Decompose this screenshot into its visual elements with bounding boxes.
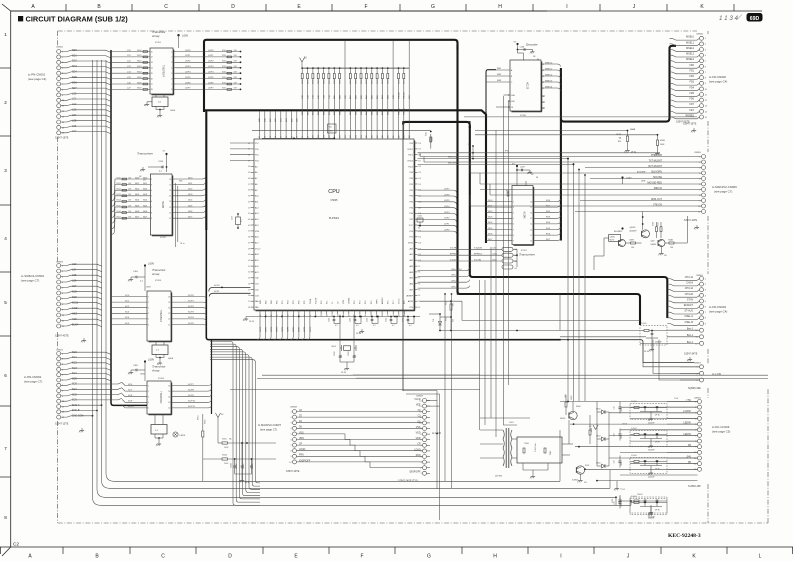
- svg-text:VCC3: VCC3: [399, 298, 401, 304]
- wire decoder output MSEL4: [541, 88, 561, 91]
- wire CN804 SD2: [61, 61, 111, 63]
- svg-text:DD2: DD2: [188, 189, 193, 191]
- svg-text:DD0: DD0: [488, 200, 493, 202]
- wire cross link: [440, 316, 451, 318]
- svg-text:37: 37: [248, 184, 250, 186]
- svg-text:48: 48: [326, 315, 328, 317]
- wire DC-CN106 pin: [667, 429, 698, 431]
- wire decoder output MSEL2: [541, 76, 561, 79]
- wire LDP3 output with resistor R243 10R: [176, 67, 241, 69]
- svg-text:12: 12: [530, 235, 532, 237]
- border frame left ruler: [11, 10, 547, 12]
- connector pin EFFECT: [700, 305, 704, 309]
- svg-text:DD6: DD6: [188, 211, 193, 213]
- wire CPU top pin 3 to data bus: [274, 112, 276, 136]
- svg-text:40: 40: [248, 201, 250, 203]
- svg-text:SCP1: SCP1: [265, 326, 267, 332]
- svg-text:1: 1: [4, 32, 7, 37]
- connector CN808 (to MAIN/V2-CN007): [293, 410, 297, 414]
- svg-text:R615: R615: [117, 205, 121, 207]
- wire DD7 to bus: [172, 216, 206, 219]
- svg-text:6: 6: [171, 78, 172, 80]
- connector pin LC7: [57, 286, 61, 290]
- wire CN809 C0: [427, 411, 431, 413]
- dashed RC module D#002: [630, 404, 667, 420]
- wire CN804 LC0: [61, 94, 111, 96]
- capacitor C232 0.1 decoupling: [407, 316, 409, 318]
- svg-text:118: 118: [409, 135, 411, 138]
- svg-text:117: 117: [404, 135, 406, 138]
- power 5V arrow cap bank: [593, 425, 596, 430]
- svg-text:0.1: 0.1: [335, 325, 338, 327]
- svg-text:D: D: [228, 554, 232, 560]
- svg-text:IC203: IC203: [155, 280, 162, 282]
- wire MAIN/V2-CN009 MIDI-IN: [640, 189, 702, 191]
- svg-text:2: 2: [420, 468, 421, 470]
- svg-text:MIDI-EN: MIDI-EN: [448, 163, 457, 165]
- svg-text:7: 7: [420, 440, 421, 442]
- svg-text:1: 1: [705, 278, 706, 280]
- svg-text:106: 106: [345, 135, 347, 138]
- vertical drop wires from CN805 region to bottom: [567, 159, 569, 402]
- svg-text:0.1: 0.1: [356, 325, 359, 327]
- svg-text:CN804: CN804: [56, 47, 64, 49]
- svg-text:VSS: VSS: [416, 427, 421, 429]
- svg-text:VPP1: VPP1: [376, 298, 378, 304]
- svg-text:LDP1: LDP1: [444, 224, 450, 226]
- svg-text:SCP4: SCP4: [282, 326, 284, 332]
- wire SD6 with resistor: [112, 213, 150, 229]
- power LG8V top: [177, 34, 179, 36]
- svg-text:6: 6: [705, 66, 706, 68]
- wires SCP0-SCP9 from CPU bottom to SCP bus: [257, 315, 260, 340]
- wire MAIN/V2-CN009 TXT-MU2NT: [640, 161, 702, 163]
- wire MIDI-OUT: [418, 158, 569, 160]
- svg-text:5: 5: [171, 73, 172, 75]
- connector pin MIDI-IN: [702, 188, 706, 192]
- connector pin CH3-12: [700, 288, 704, 292]
- wire CN808 D2: [297, 416, 319, 418]
- svg-text:KEC-92248-3: KEC-92248-3: [668, 533, 701, 539]
- connector pin LC4: [57, 269, 61, 273]
- wires transformer aux: [522, 463, 524, 470]
- junction dots on decoupling rail: [265, 316, 267, 318]
- wire SCP1 from IC203: [171, 302, 206, 305]
- svg-text:12: 12: [168, 319, 170, 321]
- svg-text:LDP6: LDP6: [185, 82, 191, 84]
- wire ST-TRIG with damping network C265: [418, 248, 503, 250]
- svg-text:S-0549-16P: S-0549-16P: [688, 485, 701, 488]
- svg-text:R652: R652: [446, 301, 448, 305]
- wire CN808 /DISP/OFF: [297, 461, 319, 463]
- connector pin 8: [702, 193, 706, 197]
- connector pin SD4: [57, 71, 61, 75]
- svg-text:70° in: 70° in: [180, 243, 185, 245]
- svg-text:9: 9: [290, 456, 291, 458]
- svg-text:10000P: 10000P: [243, 462, 245, 469]
- svg-text:TLKA: TLKA: [309, 298, 312, 304]
- svg-text:LED2: LED2: [596, 463, 601, 465]
- decoder output pin F1: [541, 101, 545, 103]
- wire CN801 SC8: [61, 393, 122, 396]
- wire DD4 to IC207: [486, 223, 512, 225]
- connector pin SC6: [57, 383, 61, 387]
- svg-text:92: 92: [418, 307, 420, 309]
- svg-text:SCP1: SCP1: [188, 300, 194, 302]
- wire L20 with resistor R600: [112, 51, 150, 53]
- wire CN809 NC: [427, 461, 431, 463]
- decoder IC206 (HC138): [541, 62, 543, 112]
- svg-text:13: 13: [168, 313, 170, 315]
- svg-text:16: 16: [530, 213, 532, 215]
- connector pin FD1: [700, 70, 704, 74]
- connector pin MOUSE: [702, 177, 706, 181]
- wire FD-CN003 CH3-26: [667, 295, 699, 297]
- connector pin 8: [698, 439, 702, 443]
- svg-text:12: 12: [542, 82, 544, 84]
- svg-text:F0: F0: [542, 96, 544, 98]
- svg-text:93: 93: [418, 301, 420, 303]
- svg-text:S004: S004: [576, 406, 580, 408]
- wire CN801 SC3: [61, 368, 111, 370]
- wire DC-CN106 pin: [667, 406, 698, 408]
- bus data-bus riser to decoder: [486, 70, 496, 114]
- svg-text:FRN: FRN: [416, 455, 421, 457]
- wire MIDI-EN: [418, 164, 574, 166]
- capacitor C203 10P: [353, 348, 355, 356]
- svg-text:FD0: FD0: [689, 64, 694, 67]
- svg-text:C229: C229: [350, 318, 352, 322]
- svg-text:LDP3: LDP3: [185, 66, 191, 68]
- svg-text:C238: C238: [520, 47, 525, 49]
- connector pin SD7: [57, 87, 61, 91]
- svg-text:SCP7: SCP7: [299, 326, 301, 332]
- wire CPU bottom-left vertical bundle: [210, 342, 260, 506]
- connector pin LC7: [57, 131, 61, 135]
- svg-text:SCP5: SCP5: [288, 326, 290, 332]
- svg-text:0-1: 0-1: [515, 268, 518, 270]
- resistor R008 pull-up: [301, 67, 303, 69]
- svg-text:SCP3: SCP3: [276, 326, 278, 332]
- wire FD7 from IC207: [533, 238, 561, 241]
- svg-text:98: 98: [302, 136, 304, 138]
- svg-text:113: 113: [418, 184, 421, 186]
- svg-text:R64B: R64B: [668, 240, 673, 242]
- wire decoder input M01: [488, 69, 510, 71]
- wire CN804 SD7: [61, 88, 111, 90]
- wire CPU top pin 6 to data bus: [291, 112, 293, 136]
- bus transceiver-A output vertical: [205, 112, 207, 231]
- svg-text:R660: R660: [591, 428, 593, 432]
- svg-text:C: C: [164, 4, 168, 10]
- svg-text:SJ547-34TE: SJ547-34TE: [684, 353, 698, 356]
- connector pin ENC-A: [57, 405, 61, 409]
- connector pin SC5: [57, 378, 61, 382]
- svg-text:S005: S005: [585, 465, 589, 467]
- connector pin VTE-ON: [702, 204, 706, 208]
- svg-text:6: 6: [290, 439, 291, 441]
- wire CN809 NC: [427, 467, 431, 469]
- svg-text:SJ547-13TE: SJ547-13TE: [55, 423, 69, 426]
- wire CN809 VLCD: [427, 400, 431, 402]
- svg-text:LDP2: LDP2: [208, 61, 214, 63]
- wire CH3-12: [418, 274, 470, 277]
- svg-text:AVREF: AVREF: [406, 294, 413, 297]
- CPU left pins: [251, 142, 255, 144]
- svg-text:R606: R606: [137, 82, 142, 84]
- svg-text:LG8V: LG8V: [182, 35, 189, 38]
- svg-text:L: L: [759, 554, 762, 560]
- svg-text:FD7: FD7: [689, 103, 694, 106]
- wire DC-CN106 D5: [667, 463, 698, 465]
- svg-text:MSEL3: MSEL3: [686, 53, 695, 56]
- capacitor C228 0.1 decoupling: [333, 316, 335, 318]
- wire SCP3 from IC203: [171, 313, 206, 316]
- wire SC3 to IC203: [112, 312, 147, 314]
- power LG8V CN805 a: [621, 176, 623, 178]
- svg-text:DF 30: DF 30: [249, 321, 254, 323]
- wire long bottom rail 4: [212, 504, 631, 506]
- svg-text:F2: F2: [542, 108, 544, 110]
- wire L25 with resistor R605: [112, 78, 150, 80]
- svg-text:FSEL-A: FSEL-A: [685, 315, 694, 318]
- svg-text:DN005: DN005: [637, 494, 643, 496]
- LED box below IC204: [151, 425, 167, 435]
- transistor array IC204 (TD62083AF): [171, 383, 173, 415]
- wire CH3-4: [418, 286, 470, 289]
- wire FD-CN002 FD2: [670, 78, 700, 80]
- connector pin 6: [698, 428, 702, 432]
- wires cap bank rows: [560, 401, 667, 403]
- connector pin MSEL2: [700, 48, 704, 52]
- svg-text:4: 4: [148, 402, 149, 404]
- wire CN803 LC7: [61, 286, 102, 288]
- svg-text:TD62083AF: TD62083AF: [159, 310, 162, 323]
- svg-text:/DISP/OFF: /DISP/OFF: [409, 472, 421, 474]
- svg-text:TD62083AF: TD62083AF: [159, 391, 162, 404]
- wire LDP5 output with resistor R245 10R: [176, 78, 241, 80]
- svg-text:54: 54: [248, 283, 250, 285]
- svg-text:99: 99: [418, 266, 420, 268]
- wire DD3 to bus: [172, 193, 206, 196]
- svg-text:R601: R601: [137, 55, 142, 57]
- wire FD-CN003 FSEL-B: [667, 324, 699, 326]
- svg-text:LE08: LE08: [168, 358, 174, 360]
- wire SC1 to IC203: [112, 301, 147, 303]
- wire SCP2 from IC203: [171, 308, 206, 311]
- svg-text:3: 3: [151, 184, 152, 186]
- svg-text:6: 6: [148, 324, 149, 326]
- svg-text:14: 14: [705, 111, 707, 113]
- wire ST-IN with damping network D267: [418, 260, 503, 262]
- svg-text:11: 11: [542, 88, 544, 90]
- connector pin SC9: [57, 297, 61, 301]
- svg-text:C228: C228: [329, 318, 331, 322]
- svg-text:CH3-12: CH3-12: [451, 275, 459, 277]
- connector pin SC1: [57, 357, 61, 361]
- svg-text:LED2: LED2: [596, 436, 601, 438]
- svg-text:77 D6: 77 D6: [620, 489, 625, 491]
- wire FD-CN002 FD7: [670, 106, 700, 108]
- ground decoupling caps: [361, 329, 363, 332]
- connector pin SD2: [57, 60, 61, 64]
- svg-text:5: 5: [705, 301, 706, 303]
- svg-text:FSELA: FSELA: [403, 108, 406, 115]
- svg-text:LDP4: LDP4: [208, 72, 214, 74]
- ground transformer area: [580, 478, 582, 481]
- svg-text:G: G: [427, 554, 431, 560]
- svg-text:8: 8: [420, 434, 421, 436]
- wire DD7 to IC207: [486, 240, 512, 242]
- svg-text:14: 14: [168, 308, 170, 310]
- connector pin FSEL-A: [700, 316, 704, 320]
- svg-text:90: 90: [259, 136, 261, 138]
- capacitor C229 0.1 decoupling: [354, 316, 356, 318]
- connector pin HSO: [57, 313, 61, 317]
- schematic dash-dot border top: [58, 30, 697, 32]
- capacitor C634 on CPU right: [419, 225, 421, 227]
- resistor R022 pull-up: [376, 67, 378, 69]
- wire CN801 SC9: [61, 398, 122, 401]
- wire CPU top pin 25 to address bus: [392, 41, 394, 136]
- wire MAIN/V2-CN009 RXT-MU2NT: [640, 167, 702, 169]
- svg-text:103: 103: [329, 135, 331, 138]
- wire CPU top pin 1 to data bus: [264, 112, 266, 136]
- wire FD4 from IC207: [533, 221, 561, 224]
- svg-text:2: 2: [148, 302, 149, 304]
- svg-text:56: 56: [248, 295, 250, 297]
- wire decoupling rail under CPU: [246, 316, 420, 318]
- svg-text:2: 2: [290, 417, 291, 419]
- svg-text:RXD1: RXD1: [408, 149, 414, 151]
- svg-text:57: 57: [248, 301, 250, 303]
- wire CH3-9: [418, 280, 470, 283]
- svg-text:SCP8: SCP8: [304, 326, 306, 332]
- wire verticals from data bus to bottom: [444, 295, 446, 481]
- resistor R026 pull-up: [398, 67, 400, 69]
- connector pin SD6: [57, 82, 61, 86]
- svg-text:LG8V: LG8V: [148, 359, 155, 362]
- svg-text:SCP10: SCP10: [188, 401, 196, 403]
- svg-text:1: 1: [290, 411, 291, 413]
- bus FD-CN003 channel bus: [470, 126, 668, 318]
- connector pin ENC-COM: [57, 415, 61, 419]
- svg-text:93: 93: [275, 136, 277, 138]
- connector pin MSEL0: [700, 36, 704, 40]
- svg-text:3: 3: [290, 423, 291, 425]
- wire CN803 SC13: [61, 303, 102, 305]
- wire SC4 to IC203: [112, 318, 147, 320]
- svg-text:115: 115: [418, 172, 421, 174]
- wire DC-CN106 LED9V: [667, 434, 698, 436]
- ground CN805: [696, 225, 698, 228]
- svg-text:8: 8: [171, 89, 172, 91]
- svg-text:11: 11: [168, 324, 170, 326]
- svg-text:103: 103: [418, 242, 421, 244]
- wire CN805 stair verticals: [419, 153, 421, 157]
- wire FD-CN003 CH3-12: [667, 290, 699, 292]
- connector pin FD6: [700, 98, 704, 102]
- svg-text:Decoder: Decoder: [526, 43, 539, 47]
- svg-text:CP: CP: [417, 444, 421, 446]
- svg-text:SJ547-14SE (TY1): SJ547-14SE (TY1): [398, 480, 418, 483]
- svg-text:4: 4: [290, 428, 291, 430]
- wire LCD CN807 feeds: [643, 363, 700, 367]
- wire /PD: [418, 152, 661, 154]
- wire CN803 LC4: [61, 270, 102, 272]
- wire CN809 LOAD: [427, 450, 431, 452]
- wire CN803 LC3: [61, 264, 102, 266]
- svg-text:58: 58: [248, 307, 250, 309]
- wire CN803 SC8: [61, 292, 102, 294]
- svg-text:EFFECT: EFFECT: [684, 304, 694, 307]
- svg-text:R605: R605: [137, 77, 142, 79]
- wire DD4 to bus: [172, 199, 206, 202]
- connector pin LC4: [57, 115, 61, 119]
- transceiver IC207 (HC245): [533, 187, 535, 245]
- svg-text:LED2: LED2: [596, 409, 601, 411]
- connector pin ST-IN: [700, 299, 704, 303]
- svg-text:9: 9: [705, 83, 706, 85]
- CPU bottom pins: [259, 310, 261, 315]
- svg-text:2: 2: [4, 100, 7, 105]
- wire L23 with resistor R603: [112, 67, 150, 69]
- svg-text:R242: R242: [222, 61, 226, 63]
- svg-text:R607: R607: [137, 88, 142, 90]
- svg-text:IC204: IC204: [158, 378, 165, 380]
- wire SD4 with resistor: [112, 201, 150, 217]
- svg-text:C231: C231: [386, 318, 388, 322]
- svg-text:16: 16: [168, 385, 170, 387]
- bus horizontal data bus above CPU: [205, 110, 486, 243]
- ground Brst module: [651, 338, 653, 347]
- svg-text:10: 10: [705, 89, 707, 91]
- svg-text:Q40×: Q40×: [651, 240, 655, 243]
- svg-text:C249: C249: [520, 167, 525, 169]
- schematic dash-dot border left: [57, 31, 59, 46]
- svg-text:12: 12: [169, 212, 171, 214]
- wire SC20 from CPU PA0: [209, 287, 251, 291]
- resistor R018 pull-up: [355, 67, 357, 69]
- connector pin SC8: [57, 291, 61, 295]
- svg-text:CH3-9: CH3-9: [451, 281, 458, 283]
- svg-text:CH3-12: CH3-12: [685, 287, 694, 290]
- wire SCP7 from IC204: [171, 383, 211, 386]
- svg-text:4: 4: [420, 456, 421, 458]
- wire MAIN/V2-CN009 MOUSE: [640, 178, 702, 180]
- connector pin 7.5V: [698, 400, 702, 404]
- svg-text:2: 2: [148, 391, 149, 393]
- wire CN809 C3: [427, 416, 431, 418]
- svg-text:CN809: CN809: [416, 396, 424, 398]
- svg-text:6: 6: [4, 373, 7, 378]
- svg-text:15: 15: [542, 64, 544, 66]
- svg-text:2: 2: [705, 284, 706, 286]
- svg-text:2: 2: [705, 44, 706, 46]
- svg-text:CH3-13-16: CH3-13-16: [451, 269, 462, 271]
- svg-text:CN806: CN806: [696, 34, 704, 36]
- power and capacitor C238 above decoder: [516, 43, 518, 45]
- svg-text:F: F: [360, 554, 363, 560]
- bus SCP vertical + horizontal: [206, 229, 560, 340]
- wire FD-CN002 MSEL4: [670, 61, 700, 63]
- svg-text:45RM: 45RM: [571, 395, 573, 400]
- svg-text:TXD0: TXD0: [408, 166, 414, 168]
- svg-text:39: 39: [248, 196, 250, 198]
- svg-text:4: 4: [151, 190, 152, 192]
- wire FD-CN002 FD6: [670, 100, 700, 102]
- connector pin D5: [698, 445, 702, 449]
